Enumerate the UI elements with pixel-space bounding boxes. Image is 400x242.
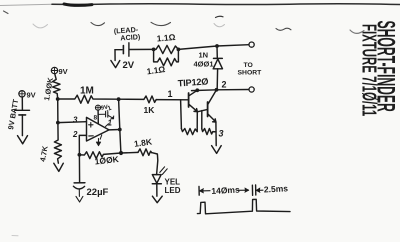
svg-text:8: 8	[94, 115, 98, 122]
Q2 emitter stroke with arrow	[208, 114, 216, 122]
ground (TIP120 emitter)	[212, 146, 222, 154]
LED D2 cathode bar	[152, 183, 161, 185]
node A junction	[152, 48, 156, 52]
node divider-mid junction	[56, 121, 60, 125]
wire to ground from battery BT2	[114, 50, 116, 61]
wire LED to ground	[156, 184, 158, 197]
+9V symbol (op-amp pin8)	[95, 105, 100, 110]
svg-text:22µF: 22µF	[87, 187, 109, 198]
svg-text:FIXTURE 7/1Ø/11: FIXTURE 7/1Ø/11	[358, 24, 380, 116]
battery BT1 9V wire	[21, 97, 23, 110]
resistor R 1.8K wire	[121, 151, 138, 154]
node feedback junction	[119, 151, 123, 155]
svg-text:ACID): ACID)	[120, 32, 141, 42]
node 2 wire to terminal	[192, 90, 249, 91]
battery BT1 wire down	[21, 115, 23, 136]
dimension double tick	[252, 185, 255, 195]
node divider-top junction	[56, 97, 60, 101]
wire 22uF	[78, 155, 80, 183]
resistor R 1M zigzag	[58, 95, 119, 103]
page curl arc	[91, 23, 105, 26]
wire output vertical	[119, 99, 121, 153]
wire internal node	[196, 112, 198, 132]
svg-text:2: 2	[72, 130, 78, 139]
wire to LED	[152, 153, 158, 175]
Q1 emitter stroke with arrow	[189, 104, 197, 111]
wire Q1 emitter to Q2 base	[197, 110, 207, 112]
resistor R 1K zigzag	[144, 96, 156, 103]
capacitor C .1 branch	[98, 113, 105, 115]
diode D1 1N4001	[216, 46, 218, 58]
ground (22uF)	[76, 196, 83, 202]
battery BT2 long bar	[128, 43, 130, 56]
junction diode bottom	[215, 88, 219, 92]
resistor R internal2 vertical drop	[201, 111, 203, 129]
resistor R 1.8K zigzag	[138, 149, 152, 156]
op-amp - sign	[89, 135, 93, 137]
+9V symbol (divider)	[51, 67, 57, 73]
op-amp + sign	[89, 123, 93, 128]
svg-text:TO: TO	[244, 62, 253, 69]
pin4 tick	[100, 135, 102, 139]
ground (2V battery)	[111, 61, 120, 68]
transistor Q2 (TIP120 output) base bar	[207, 102, 209, 117]
svg-text:1M: 1M	[80, 86, 94, 97]
node diode top junction	[215, 44, 219, 48]
resistor R 1.1ohm top	[154, 45, 179, 53]
resistor R 100K zigzag	[79, 152, 121, 159]
resistor R internal1 vertical drop	[180, 100, 183, 129]
waveform dimension left tick	[198, 187, 200, 196]
ground (op-amp pin4)	[98, 139, 100, 143]
terminal circle top (TO SHORT +)	[249, 42, 254, 47]
resistor R 1.1ohm bottom parallel branch	[154, 49, 179, 65]
wire to terminal 1	[178, 45, 249, 50]
terminal circle bottom (TO SHORT -)	[249, 87, 254, 92]
svg-text:1.1Ω: 1.1Ω	[156, 32, 176, 44]
svg-text:TIP12Ø: TIP12Ø	[177, 76, 208, 88]
Q1 collector stroke	[189, 90, 197, 96]
resistor R internal2 zigzag	[202, 129, 216, 135]
wire pin2 op-amp	[79, 135, 86, 154]
page curl arc faint	[350, 30, 364, 33]
wire op-amp output	[109, 129, 120, 131]
ground (4.7K)	[54, 163, 64, 171]
svg-text:SHORT: SHORT	[238, 70, 263, 77]
node pin2/cap junction	[78, 153, 82, 157]
wire 1K to Q1 base	[156, 99, 188, 101]
dimension line right part	[238, 189, 249, 191]
svg-text:1K: 1K	[144, 105, 156, 115]
node output-top junction	[117, 97, 121, 101]
resistor R 1K wire from output node	[119, 98, 144, 100]
svg-text:2.5ms: 2.5ms	[264, 183, 289, 194]
svg-text:3: 3	[219, 129, 224, 139]
wire pin8	[97, 111, 99, 124]
divider rail wire	[57, 99, 59, 123]
svg-text:1: 1	[108, 119, 113, 128]
battery BT1 short bar	[19, 114, 26, 116]
svg-text:3: 3	[73, 116, 78, 125]
resistor R internal1 zigzag	[181, 129, 197, 135]
svg-text:14Øms: 14Øms	[211, 184, 240, 195]
wire pin3 of TIP120	[215, 122, 217, 146]
op-amp U1 triangle	[87, 117, 110, 141]
ground (LED)	[152, 196, 162, 203]
junction Q1 collector	[195, 88, 199, 92]
+9V symbol (battery)	[19, 91, 25, 97]
page curl dash	[216, 16, 224, 17]
svg-text:1N: 1N	[199, 51, 209, 60]
svg-text:9V: 9V	[27, 91, 36, 100]
resistor R 1.00K vertical	[53, 74, 60, 99]
svg-text:1: 1	[168, 89, 173, 99]
svg-text:2V: 2V	[123, 60, 135, 71]
page curl arc faint	[214, 24, 225, 27]
ground (.1 cap) small arrow	[108, 115, 113, 118]
svg-text:2: 2	[222, 80, 227, 90]
battery BT2 short bar	[122, 46, 124, 54]
ground (9V battery)	[18, 136, 28, 144]
page curl arc	[151, 22, 171, 25]
battery BT1 long bar	[15, 109, 30, 111]
transistor Q1 (TIP120 input) base bar	[188, 93, 190, 107]
dimension 2.5ms arrow	[256, 189, 263, 191]
svg-text:9V: 9V	[59, 67, 68, 76]
battery BT2 (lead-acid) wires	[115, 49, 122, 51]
dimension left arrow	[200, 190, 211, 192]
paper top edge	[0, 4, 52, 5]
Q2 collector stroke	[208, 90, 217, 105]
resistor R 4.7K vertical	[54, 123, 61, 164]
waveform pulse train	[197, 199, 290, 214]
capacitor C 22uF bottom plate curved	[73, 186, 84, 189]
svg-text:LED: LED	[165, 186, 181, 195]
pin1 tick	[106, 124, 109, 127]
LED D2 triangle	[152, 175, 161, 184]
svg-text:4ØØ1: 4ØØ1	[194, 60, 214, 69]
node B junction	[177, 48, 181, 52]
node output junction	[118, 128, 122, 132]
page curl arc	[33, 24, 48, 28]
corner mark left	[4, 11, 9, 14]
page curl arc	[276, 28, 291, 30]
faint smudge bottom left	[12, 235, 18, 237]
capacitor C 22uF top plate	[74, 182, 85, 184]
LED light arrows	[160, 167, 167, 175]
wire pin3 op-amp	[58, 121, 87, 124]
